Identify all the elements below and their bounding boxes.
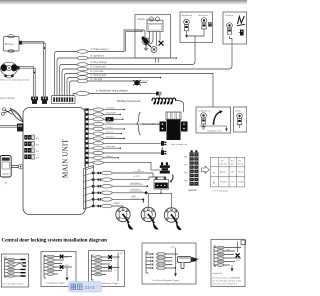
svg-text:A: A (213, 170, 215, 174)
strip pin row 6 (85, 133, 88, 135)
wire coil to HV pack (176, 101, 184, 113)
wire fan D (62, 69, 77, 96)
door actuator 3 (164, 208, 181, 230)
strip pin row 7 wire to plug (85, 137, 88, 139)
main unit right pin strip (85, 108, 88, 167)
backup wire plug (41, 97, 48, 104)
central door lock bracket (137, 112, 141, 135)
watermark (69, 282, 102, 293)
svg-text:Diagram B: Diagram B (213, 273, 223, 275)
svg-text:(WH): (WH) (236, 260, 240, 262)
svg-text:Conbin: Conbin (238, 182, 244, 184)
svg-text:Lock(GR): Lock(GR) (106, 108, 114, 110)
svg-text:*T: 2 Parity diode: *T: 2 Parity diode (212, 189, 229, 192)
svg-text:JP2: JP2 (231, 161, 234, 163)
bottom box 2: negative trigger (41, 252, 76, 287)
svg-text:a: a (90, 109, 91, 111)
wires below engine box (156, 58, 159, 63)
connector oval A (77, 50, 88, 54)
svg-text:GND(BE4): GND(BE4) (130, 189, 141, 191)
JP2 connector (24, 142, 40, 147)
relay wires (147, 37, 161, 46)
handbrake wire oval (76, 91, 89, 95)
svg-text:B: Ignition(+): B: Ignition(+) (91, 55, 105, 58)
svg-text:to key: to key (235, 110, 242, 113)
cut X mark (159, 41, 164, 46)
svg-text:D: Unlock wire: D: Unlock wire (91, 66, 107, 69)
svg-text:F: Parking light: F: Parking light (91, 74, 107, 77)
handbrake switch box (196, 107, 231, 133)
bottom box 5: diagram B (211, 240, 246, 287)
firewall grommet (133, 80, 149, 85)
svg-text:(C)Negative Trigger: (C)Negative Trigger (47, 282, 65, 285)
svg-text:Flash(+): Flash(+) (106, 156, 113, 158)
brake pedal box (right) (234, 107, 247, 132)
plate row 4 GND(BE4) (94, 192, 98, 194)
battery (154, 177, 169, 189)
high voltage coil pack (160, 112, 188, 140)
relay (147, 17, 163, 41)
key cylinder right (237, 113, 243, 128)
pedal scribble (238, 16, 245, 24)
antenna plug (17, 124, 24, 132)
scissors (1, 108, 13, 116)
svg-text:door open: door open (199, 14, 209, 17)
JP3 connector (24, 148, 40, 153)
svg-text:to Handbrake wiring diagram: to Handbrake wiring diagram (96, 90, 128, 93)
strip pin row 8 wire to plug (85, 142, 88, 144)
connector oval G (77, 79, 88, 83)
handbrake lever (213, 110, 223, 125)
svg-text:G: Tail light: G: Tail light (91, 78, 103, 81)
svg-text:To Brake: To Brake (225, 14, 234, 17)
svg-text:Always: Always (220, 171, 226, 174)
svg-text:d: d (90, 124, 91, 126)
arm/disarm box (180, 12, 213, 43)
svg-text:Unlock: Unlock (238, 164, 244, 166)
to-brake box (223, 12, 247, 44)
plug on key 2 (208, 22, 211, 26)
svg-text:c: c (90, 119, 91, 121)
svg-text:AC: AC (138, 169, 141, 172)
connector oval D (77, 67, 88, 71)
svg-text:Winding Coil around: Winding Coil around (117, 99, 141, 103)
key cylinder handbrake (201, 113, 207, 124)
lower angled connector plate (84, 166, 95, 210)
plug row 10 (161, 150, 166, 155)
door actuator 1 (116, 207, 133, 229)
strip pin row 2 (85, 113, 88, 115)
connector oval E (77, 72, 88, 76)
wire battery to actuator 2 (148, 189, 161, 207)
svg-text:handbrake wire: handbrake wire (208, 130, 223, 133)
gun actuator (178, 257, 192, 263)
bottom box 3: positive trigger (89, 251, 125, 287)
bottom box 1: 5-wire actuator (2, 254, 29, 287)
plate row 5 GND (94, 198, 98, 200)
wires inside to-brake box (230, 36, 233, 44)
svg-text:Flashing: Flashing (220, 182, 227, 184)
antenna wire into left side (0, 125, 17, 127)
strip pin row 9 (85, 147, 88, 149)
svg-text:Unlock(GR): Unlock(GR) (106, 112, 116, 114)
svg-text:A: Brake relay(+): A: Brake relay(+) (91, 48, 109, 51)
strip pin row 3 with 1A fuse (85, 118, 88, 120)
svg-text:Back-up: Back-up (5, 44, 14, 46)
connector oval F (77, 76, 88, 80)
handbrake row end connector (156, 92, 161, 100)
strip pin row 12 wire to buzzer (85, 161, 88, 163)
svg-text:High voltage coil: High voltage coil (171, 143, 188, 146)
svg-text:For Positive/Negative Trigger: For Positive/Negative Trigger (153, 279, 180, 282)
strip pin row 4 wire to HV coil (85, 123, 88, 125)
buzzer speaker (151, 162, 170, 173)
svg-text:(GR): (GR) (226, 249, 230, 251)
svg-text:k: k (90, 158, 91, 160)
svg-text:optional: optional (188, 189, 197, 192)
strip pin row 10 wire to plug (85, 152, 88, 154)
gauge (151, 47, 157, 53)
wire fan F (67, 78, 77, 96)
wire C stub (88, 43, 195, 65)
optional pin block (190, 150, 199, 185)
wire F stub (88, 77, 160, 79)
svg-text:b: b (90, 114, 91, 116)
svg-text:JP1: JP1 (221, 161, 224, 163)
engine cut relay box (135, 15, 171, 59)
connector oval C (77, 63, 88, 67)
svg-text:Central door locking system in: Central door locking system installation… (2, 237, 108, 243)
wire fan A (55, 52, 78, 96)
handbrake base wire (200, 126, 228, 131)
svg-text:E: Lock wire: E: Lock wire (91, 70, 105, 73)
plate row 1 AC (94, 172, 98, 174)
ground under key (201, 124, 205, 129)
svg-text:lock wiring of car. Please fit: lock wiring of car. Please fit it. (213, 283, 238, 286)
JP1 connector (24, 135, 40, 140)
svg-text:0.8s: 0.8s (231, 172, 234, 174)
wire siren to main unit (20, 67, 36, 96)
wire fan G (70, 81, 78, 96)
svg-text:(1) Connect wires as of ABCD(E: (1) Connect wires as of ABCD(E) (213, 276, 241, 279)
svg-text:Window(-): Window(-) (106, 137, 115, 139)
svg-text:(WH): (WH) (65, 265, 70, 267)
wire handbrake row (89, 93, 156, 95)
connector oval B (77, 56, 88, 60)
JP4 connector (24, 155, 40, 160)
jumper table (210, 157, 245, 187)
svg-text:21+4: 21+4 (85, 285, 96, 290)
svg-text:(BK): (BK) (65, 257, 69, 259)
ignition key switch (142, 37, 152, 51)
wire A to engine cut relay (88, 30, 143, 52)
svg-text:T: T (5, 182, 7, 186)
cable leaf pointer (11, 109, 23, 122)
svg-text:Siren(+): Siren(+) (106, 131, 113, 134)
plate row 3 GND(BE2) (94, 185, 98, 187)
winding coil (152, 98, 176, 104)
svg-text:Arm/disarm: Arm/disarm (182, 14, 193, 17)
siren (horn) (1, 62, 18, 78)
wire into engine box (135, 30, 145, 38)
strip pin row 1 (85, 108, 88, 110)
svg-text:For 5 wire door actuator: For 5 wire door actuator (3, 282, 25, 285)
svg-text:(Horn siren optional)(optional: (Horn siren optional)(optional) (0, 79, 29, 82)
wire G to firewall grommet (88, 80, 134, 82)
strip pin row 11 (85, 157, 88, 159)
key cylinder 2 (201, 18, 207, 33)
battery arrow (171, 175, 174, 182)
svg-text:firewall: firewall (142, 81, 149, 83)
key cylinder 3 (227, 23, 233, 35)
plug row 8 (161, 141, 166, 151)
svg-text:Door(+): Door(+) (106, 121, 113, 124)
siren plug stub (17, 66, 20, 70)
wire E to handbrake switch box (88, 74, 213, 108)
wire D to brake box (88, 44, 232, 69)
svg-text:cut it to find on: cut it to find on (0, 97, 16, 100)
svg-text:(+)12V: (+)12V (134, 176, 141, 178)
svg-text:e: e (90, 129, 91, 131)
wire fan E (65, 74, 78, 96)
svg-text:GND: GND (131, 196, 136, 198)
plate row 6 START (94, 205, 98, 207)
bottom box 4: positive/negative trigger (142, 243, 198, 284)
svg-text:Trunk(-): Trunk(-) (106, 126, 113, 129)
svg-text:handbrake sw: handbrake sw (198, 110, 211, 113)
svg-text:C: B(+) Orange: C: B(+) Orange (91, 61, 108, 64)
brake switch component (239, 30, 244, 36)
wire B to arm/disarm box (88, 57, 176, 59)
key cylinder 1 (184, 19, 190, 37)
svg-text:B: B (213, 180, 215, 184)
svg-text:Dome light: Dome light (106, 145, 116, 148)
svg-text:Lock: Lock (230, 164, 234, 166)
wire backup unit to main unit (22, 41, 45, 96)
door actuator 2 (141, 207, 158, 229)
svg-text:START: START (113, 202, 121, 205)
main unit box (23, 108, 86, 215)
fuse 1A (106, 117, 114, 121)
wires inside arm/disarm box (187, 33, 205, 43)
svg-text:g: g (90, 138, 91, 140)
svg-text:(2) the same type with your ce: (2) the same type with your central (213, 280, 243, 283)
main unit top connector strip (52, 96, 76, 104)
svg-text:GND(BE2): GND(BE2) (130, 183, 141, 185)
wire fan C (60, 65, 78, 96)
svg-text:MAIN UNIT: MAIN UNIT (62, 139, 70, 178)
svg-text:Door trig: Door trig (220, 163, 227, 166)
svg-text:Round: Round (238, 172, 243, 174)
wire battery to actuator 3 (148, 193, 171, 208)
svg-text:JP3: JP3 (238, 161, 241, 163)
siren wire plug (31, 97, 38, 104)
valet switch device (0, 156, 23, 186)
svg-text:3.5s: 3.5s (231, 182, 234, 184)
wire fan B (57, 58, 77, 96)
backup battery unit (4, 35, 20, 53)
svg-text:h: h (90, 143, 91, 145)
plate row 2 +12V (94, 179, 98, 181)
svg-text:1A: 1A (107, 118, 110, 122)
svg-text:(B)Positive Trigger: (B)Positive Trigger (102, 282, 119, 285)
fat arrow (202, 166, 210, 173)
backup unit plug stub (19, 41, 22, 45)
strip pin row 5 (85, 128, 88, 130)
